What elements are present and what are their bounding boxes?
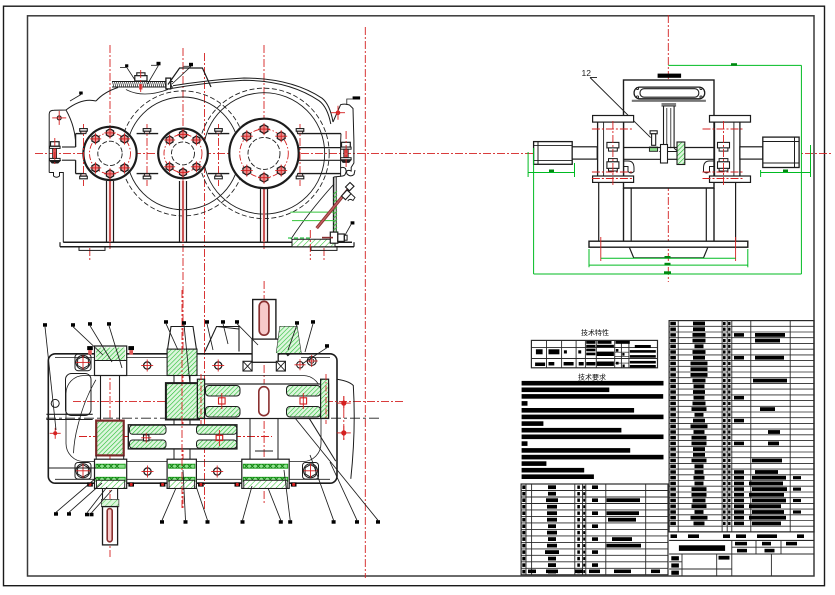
svg-text:12: 12 (582, 68, 592, 78)
svg-text:技术要求: 技术要求 (578, 373, 606, 382)
svg-text:技术特性: 技术特性 (581, 328, 609, 337)
